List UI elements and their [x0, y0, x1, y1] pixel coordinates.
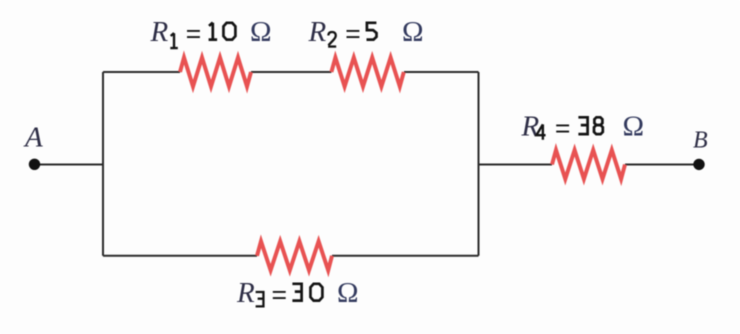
svg-text:B: B [693, 128, 708, 154]
svg-text:A: A [23, 122, 43, 154]
svg-text:Ω: Ω [623, 111, 645, 143]
svg-text:R: R [521, 111, 540, 143]
svg-text:R: R [236, 277, 255, 309]
svg-text:R: R [150, 16, 169, 48]
svg-text:Ω: Ω [337, 277, 359, 309]
svg-text:R: R [308, 16, 327, 48]
svg-text:Ω: Ω [402, 16, 424, 48]
svg-text:Ω: Ω [250, 16, 272, 48]
